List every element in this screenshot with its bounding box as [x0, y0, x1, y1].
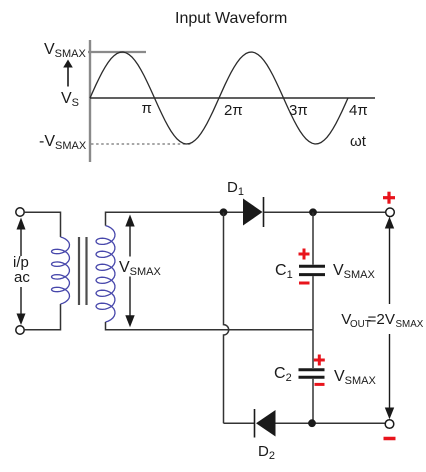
wire bottom rail left segment	[224, 422, 255, 424]
bottom junction dot	[308, 419, 316, 427]
capacitor C2	[299, 370, 325, 378]
output terminal top-right	[386, 208, 395, 217]
svg-text:SMAX: SMAX	[396, 319, 424, 330]
node A junction dot	[220, 208, 228, 216]
output plus label	[383, 192, 395, 204]
input terminal bottom-left	[16, 326, 24, 334]
wire C1 to middle rail	[312, 276, 314, 330]
C2 plus polarity	[314, 355, 325, 366]
svg-text:π: π	[142, 100, 152, 117]
-Vsmax dotted reference line	[91, 143, 192, 145]
waveform vertical axis	[89, 40, 91, 162]
svg-text:=2V: =2V	[368, 311, 396, 328]
diode D2	[255, 409, 276, 438]
diode D1	[243, 197, 264, 227]
secondary Vsmax measurement arrow	[125, 215, 134, 328]
svg-text:Input Waveform: Input Waveform	[175, 10, 287, 27]
capacitor C1	[299, 266, 325, 274]
C1 minus polarity	[299, 282, 310, 285]
wire bottom-left terminal to primary	[24, 304, 60, 330]
wire node B down to C1	[312, 212, 314, 264]
wire top-left terminal to primary	[24, 212, 60, 237]
i/p ac measurement arrow	[17, 218, 26, 326]
C1 plus polarity	[299, 249, 310, 260]
svg-text:4π: 4π	[349, 102, 368, 119]
wire secondary bottom to middle rail	[106, 322, 314, 330]
Vout measurement arrow	[385, 217, 394, 419]
transformer core	[79, 237, 87, 305]
svg-text:ac: ac	[14, 269, 30, 286]
wire C2 down to bottom rail	[312, 379, 314, 423]
waveform horizontal axis (zero line)	[90, 97, 375, 99]
svg-text:2π: 2π	[224, 102, 243, 119]
transformer secondary winding	[96, 226, 115, 322]
amplitude up arrow	[63, 60, 73, 87]
transformer primary winding	[52, 237, 70, 304]
wire middle rail down to C2	[312, 330, 314, 368]
wire D2 to output bottom terminal	[276, 422, 386, 424]
C2 minus polarity	[315, 383, 325, 386]
output minus label	[384, 437, 396, 441]
Vsmax peak reference line	[88, 51, 146, 53]
left vertical wire with crossover hop	[224, 212, 229, 423]
input terminal top-left	[16, 208, 24, 216]
wire D1 to output top terminal	[264, 211, 386, 213]
sine wave	[90, 52, 348, 144]
svg-text:3π: 3π	[289, 102, 308, 119]
node B junction dot (top of C1)	[309, 208, 317, 216]
label Vout = 2Vsmax	[341, 311, 423, 330]
svg-text:ωt: ωt	[350, 133, 367, 150]
wire secondary top to node A	[106, 212, 244, 225]
output terminal bottom-right	[385, 420, 394, 429]
